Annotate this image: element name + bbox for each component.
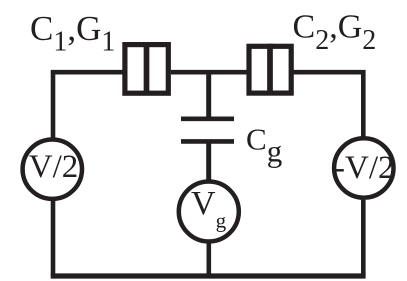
wire: left vertical below V/2 source to bottom-left corner (51, 201, 56, 277)
tunnel junction J1 (C1,G1) (125, 42, 168, 93)
wire: middle drop from top rail to capacitor Cg top plate (206, 72, 211, 119)
wire: between junctions J1 and J2 (171, 70, 247, 75)
wire: right vertical below -V/2 source to bottom-right corner (361, 200, 366, 276)
voltage source -V/2 (334, 138, 395, 197)
wire: bottom rail (51, 273, 366, 278)
wire: Vg source to bottom rail (207, 242, 212, 276)
wire: top-right branch (junction J2 to corner, down to -V/2) (294, 72, 364, 136)
tunnel junction J2 (C2,G2) (249, 44, 291, 93)
svg-text:-V/2: -V/2 (334, 150, 395, 186)
capacitor Cg (181, 119, 234, 142)
voltage source V/2 (23, 140, 82, 199)
svg-text:V/2: V/2 (29, 149, 79, 185)
wire: top-left branch (corner at left, to junction J1) (53, 72, 123, 137)
wire: capacitor Cg bottom plate to Vg source (206, 141, 211, 181)
voltage source Vg (179, 182, 239, 242)
